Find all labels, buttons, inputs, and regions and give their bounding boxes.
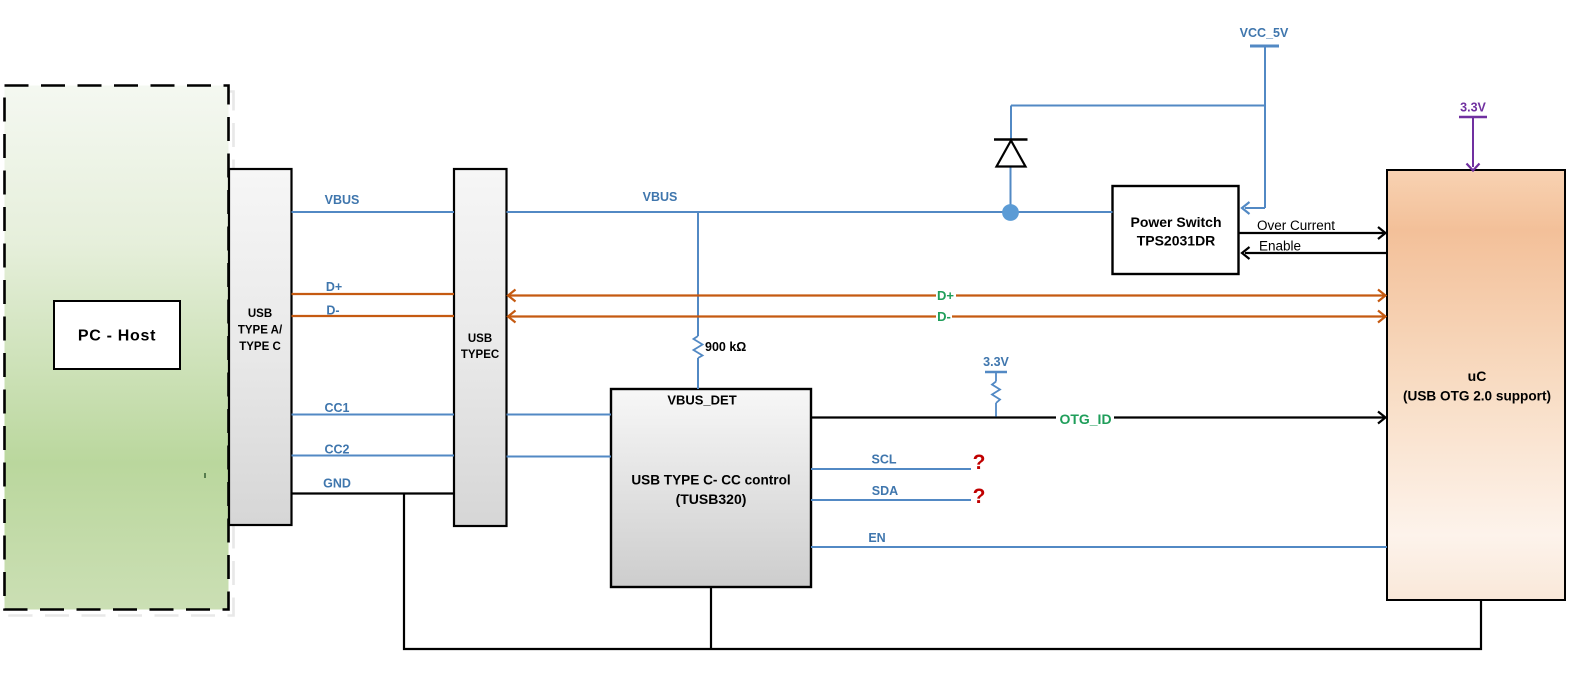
svg-text:USB TYPE C- CC control: USB TYPE C- CC control bbox=[631, 473, 790, 488]
wire D- TYPEC-to-uC with arrows bbox=[508, 311, 1386, 323]
svg-text:Over Current: Over Current bbox=[1257, 218, 1335, 233]
stray tick mark bbox=[204, 473, 206, 478]
svg-text:SCL: SCL bbox=[872, 453, 897, 467]
svg-text:TYPE C: TYPE C bbox=[239, 341, 281, 353]
PC-Host dashed container bbox=[5, 86, 229, 610]
svg-text:Enable: Enable bbox=[1259, 239, 1301, 254]
resistor 900k zigzag bbox=[694, 336, 703, 358]
svg-text:D-: D- bbox=[937, 309, 951, 324]
svg-text:3.3V: 3.3V bbox=[1460, 101, 1486, 115]
svg-text:EN: EN bbox=[868, 531, 885, 545]
svg-text:VCC_5V: VCC_5V bbox=[1240, 26, 1289, 40]
svg-text:D-: D- bbox=[326, 304, 339, 318]
resistor 3.3V pullup bbox=[985, 372, 1007, 417]
svg-text:TYPE A/: TYPE A/ bbox=[238, 325, 283, 337]
junction dot VBUS node bbox=[1002, 204, 1019, 221]
wire Over Current with arrow bbox=[1239, 227, 1386, 239]
wire GND bbox=[292, 492, 455, 494]
wire OTG_ID with arrow bbox=[811, 412, 1386, 424]
PC-Host container shadow bbox=[10, 92, 234, 616]
wire SDA bbox=[811, 499, 971, 501]
uC box bbox=[1387, 170, 1565, 600]
wire VCC_5V rail bbox=[1011, 46, 1280, 214]
svg-text:VBUS: VBUS bbox=[325, 193, 360, 207]
wire SCL bbox=[811, 468, 971, 470]
svg-text:OTG_ID: OTG_ID bbox=[1059, 411, 1111, 427]
wire ground routing to bottom bbox=[404, 494, 1481, 650]
svg-text:CC1: CC1 bbox=[324, 401, 349, 415]
Power Switch box bbox=[1113, 186, 1239, 274]
svg-text:900 kΩ: 900 kΩ bbox=[705, 340, 746, 354]
svg-text:D+: D+ bbox=[937, 288, 954, 303]
wire 3.3V purple rail with arrow bbox=[1459, 117, 1487, 171]
svg-text:(USB OTG 2.0 support): (USB OTG 2.0 support) bbox=[1403, 389, 1551, 404]
svg-text:D+: D+ bbox=[326, 280, 342, 294]
wire D+ TYPEC-to-uC with arrows bbox=[508, 290, 1386, 302]
wire VBUS TYPEC-to-PowerSwitch bbox=[507, 211, 1113, 213]
PC-Host box bbox=[54, 301, 180, 369]
svg-text:USB: USB bbox=[468, 333, 492, 345]
svg-text:PC - Host: PC - Host bbox=[78, 328, 156, 345]
svg-text:Power Switch: Power Switch bbox=[1130, 214, 1221, 230]
svg-text:3.3V: 3.3V bbox=[983, 355, 1009, 369]
wire VBUS A-to-TYPEC bbox=[292, 211, 455, 213]
USB TYPEC connector box bbox=[454, 169, 507, 526]
svg-text:SDA: SDA bbox=[872, 484, 898, 498]
wire CC2 A-to-TYPEC bbox=[292, 455, 455, 457]
svg-text:VBUS_DET: VBUS_DET bbox=[667, 393, 736, 408]
svg-text:uC: uC bbox=[1468, 368, 1487, 384]
svg-text:?: ? bbox=[973, 485, 986, 508]
svg-text:GND: GND bbox=[323, 477, 351, 491]
wire EN bbox=[811, 546, 1387, 548]
svg-text:TYPEC: TYPEC bbox=[461, 349, 499, 361]
wire Enable with arrow bbox=[1242, 247, 1386, 259]
svg-text:VBUS: VBUS bbox=[643, 190, 678, 204]
svg-text:(TUSB320): (TUSB320) bbox=[676, 491, 747, 507]
svg-text:USB: USB bbox=[248, 308, 272, 320]
svg-text:CC2: CC2 bbox=[324, 443, 349, 457]
USB TYPE A/TYPE C connector box bbox=[229, 169, 292, 525]
wire D+ A-to-TYPEC bbox=[292, 293, 455, 295]
wire VBUS_DET vertical drop bbox=[697, 212, 699, 336]
wire CC2 TYPEC-to-TUSB bbox=[507, 456, 612, 458]
diode D1 bbox=[994, 140, 1028, 167]
svg-text:?: ? bbox=[973, 451, 986, 474]
TUSB320 CC control box bbox=[611, 389, 811, 587]
wire CC1 TYPEC-to-TUSB bbox=[507, 414, 612, 416]
wire CC1 A-to-TYPEC bbox=[292, 414, 455, 416]
svg-text:TPS2031DR: TPS2031DR bbox=[1137, 233, 1216, 249]
wire D- A-to-TYPEC bbox=[292, 315, 455, 317]
wire TUSB ground stub bbox=[710, 587, 712, 649]
